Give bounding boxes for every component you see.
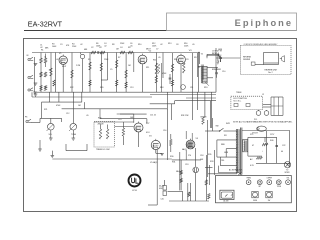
svg-text:R21: R21 <box>44 109 47 111</box>
svg-text:T2: T2 <box>201 53 204 55</box>
svg-text:V4: V4 <box>149 136 152 138</box>
svg-text:5Y3GT: 5Y3GT <box>252 133 259 135</box>
svg-text:.02: .02 <box>40 47 43 49</box>
svg-text:100K: 100K <box>52 46 57 48</box>
svg-text:YEL: YEL <box>221 160 225 162</box>
svg-text:C15 .05: C15 .05 <box>150 115 156 117</box>
svg-text:VOL: VOL <box>49 134 53 136</box>
svg-text:R22: R22 <box>70 87 73 89</box>
svg-text:SPKR: SPKR <box>285 172 291 174</box>
svg-text:EA-32RVT: EA-32RVT <box>28 19 63 28</box>
svg-text:T2: T2 <box>198 67 200 69</box>
svg-text:.02: .02 <box>104 45 107 47</box>
svg-text:R11: R11 <box>146 67 149 69</box>
svg-text:J2: J2 <box>262 94 264 96</box>
svg-text:C19: C19 <box>185 164 188 166</box>
svg-text:N.O. N.C.: N.O. N.C. <box>234 101 242 103</box>
svg-text:C3: C3 <box>60 44 62 46</box>
svg-text:R18: R18 <box>160 87 163 89</box>
svg-text:C14: C14 <box>118 119 121 121</box>
svg-text:40-40: 40-40 <box>159 186 164 188</box>
svg-text:REVERB UNIT: REVERB UNIT <box>265 69 279 71</box>
svg-text:SW: SW <box>268 200 271 202</box>
svg-text:INT: INT <box>259 186 262 188</box>
svg-text:PL1: PL1 <box>254 119 257 121</box>
svg-text:IN: IN <box>27 55 29 57</box>
svg-text:1M: 1M <box>78 105 81 107</box>
svg-text:AC INTERLOCK: AC INTERLOCK <box>229 168 243 171</box>
svg-text:6EU7: 6EU7 <box>62 66 66 68</box>
svg-text:C9: C9 <box>186 59 188 61</box>
svg-text:TREM: TREM <box>236 92 242 94</box>
svg-text:1M: 1M <box>128 65 131 67</box>
svg-text:R19: R19 <box>204 87 207 89</box>
svg-text:C15: C15 <box>44 87 47 89</box>
svg-text:R13: R13 <box>168 43 171 45</box>
svg-text:C4: C4 <box>120 47 122 49</box>
svg-text:LISTED: LISTED <box>132 190 138 192</box>
svg-text:C5: C5 <box>110 69 112 71</box>
svg-text:100K: 100K <box>152 45 157 47</box>
svg-text:RED: RED <box>221 144 226 146</box>
svg-text:1M: 1M <box>49 70 52 72</box>
svg-text:NOTE: ALL VOLTAGES MEASURED WI: NOTE: ALL VOLTAGES MEASURED WITH VTVM. N… <box>233 120 293 123</box>
svg-text:C16: C16 <box>163 130 166 132</box>
svg-text:.02: .02 <box>80 44 83 46</box>
svg-text:R27: R27 <box>146 123 149 125</box>
svg-text:6C4: 6C4 <box>146 132 149 134</box>
svg-text:R10: R10 <box>138 44 141 46</box>
svg-text:R8: R8 <box>112 44 114 46</box>
svg-text:C8: C8 <box>176 44 178 46</box>
svg-text:220K: 220K <box>120 43 125 45</box>
svg-text:R17: R17 <box>194 57 197 59</box>
svg-text:DRIVER: DRIVER <box>243 59 251 61</box>
svg-text:C22: C22 <box>282 145 285 147</box>
svg-text:8: 8 <box>218 61 219 63</box>
svg-text:6EU7: 6EU7 <box>146 49 151 51</box>
svg-text:220K: 220K <box>72 46 77 48</box>
svg-text:SW: SW <box>216 126 219 128</box>
svg-text:6.3V: 6.3V <box>250 165 255 167</box>
svg-text:2.2M: 2.2M <box>76 65 81 67</box>
svg-text:40: 40 <box>281 151 283 153</box>
svg-text:R40: R40 <box>270 140 273 142</box>
svg-text:DEPTH: DEPTH <box>267 178 272 180</box>
svg-text:220K: 220K <box>184 45 189 47</box>
svg-text:TREMOLO OSC: TREMOLO OSC <box>96 149 111 151</box>
svg-text:C20: C20 <box>161 199 164 201</box>
svg-text:R1: R1 <box>41 50 43 52</box>
svg-text:TREM: TREM <box>246 178 251 180</box>
svg-text:VOL: VOL <box>286 178 289 180</box>
svg-text:1M: 1M <box>116 49 119 51</box>
svg-text:.02: .02 <box>160 44 163 46</box>
svg-text:R5: R5 <box>88 59 90 61</box>
svg-text:No. 2: No. 2 <box>268 72 272 74</box>
svg-text:.05: .05 <box>158 57 161 59</box>
svg-text:68K: 68K <box>84 49 88 51</box>
svg-text:R15: R15 <box>174 59 177 61</box>
svg-text:Epiphone: Epiphone <box>235 18 293 28</box>
svg-text:68K: 68K <box>45 47 49 49</box>
svg-text:R7: R7 <box>118 57 120 59</box>
svg-text:NE-2: NE-2 <box>176 171 180 173</box>
svg-text:TONE: TONE <box>277 186 281 188</box>
svg-text:C12: C12 <box>66 113 69 115</box>
svg-text:.02: .02 <box>56 59 59 61</box>
svg-text:.05: .05 <box>86 115 89 117</box>
svg-text:C1: C1 <box>44 57 46 59</box>
svg-text:+: + <box>262 151 263 153</box>
svg-text:C11: C11 <box>190 87 193 89</box>
svg-text:R30: R30 <box>170 156 173 158</box>
svg-text:SR: SR <box>224 135 227 137</box>
svg-text:V5 6AQ5: V5 6AQ5 <box>150 161 157 164</box>
svg-text:R35: R35 <box>208 154 211 156</box>
svg-text:47: 47 <box>252 145 254 147</box>
svg-text:R28 270K: R28 270K <box>181 115 189 117</box>
svg-text:COMPLETE REVERB AND CABLE ASSE: COMPLETE REVERB AND CABLE ASSEMBLY <box>244 43 279 46</box>
svg-text:220K: 220K <box>104 59 109 61</box>
svg-text:.05: .05 <box>130 45 133 47</box>
svg-text:C10: C10 <box>222 71 225 73</box>
svg-text:2N408: 2N408 <box>98 124 105 126</box>
svg-text:270: 270 <box>188 155 191 157</box>
svg-text:FUSE: FUSE <box>253 200 257 202</box>
svg-text:470K: 470K <box>162 73 167 75</box>
svg-text:470K: 470K <box>56 105 61 107</box>
svg-text:V1: V1 <box>59 53 62 55</box>
svg-text:R31: R31 <box>172 162 175 164</box>
svg-text:GRN: GRN <box>218 49 223 51</box>
svg-text:V5: V5 <box>196 138 199 140</box>
svg-text:FS: FS <box>25 117 28 119</box>
svg-text:C7: C7 <box>156 49 158 51</box>
svg-text:47K: 47K <box>66 45 70 47</box>
svg-text:C13: C13 <box>130 87 133 89</box>
svg-text:.05: .05 <box>192 44 195 46</box>
svg-text:R20: R20 <box>100 87 103 89</box>
svg-text:10K: 10K <box>200 159 204 161</box>
svg-text:BLK: BLK <box>218 55 222 57</box>
svg-text:AC SW: AC SW <box>224 200 230 203</box>
svg-text:V3: V3 <box>189 50 192 52</box>
svg-text:TONE: TONE <box>71 134 77 136</box>
svg-text:C18: C18 <box>200 155 203 157</box>
svg-text:R33: R33 <box>210 161 213 163</box>
svg-text:SW1: SW1 <box>226 123 230 125</box>
svg-text:C2: C2 <box>91 47 93 49</box>
svg-text:R14: R14 <box>153 60 156 62</box>
svg-text:AC: AC <box>250 158 253 161</box>
svg-text:117V: 117V <box>270 134 275 136</box>
svg-text:GRN: GRN <box>224 152 229 154</box>
